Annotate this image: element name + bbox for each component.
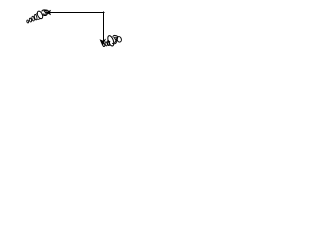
thread loop 3 bbox=[107, 40, 110, 45]
arrowhead (left, pointing at top screw) bbox=[46, 10, 50, 14]
thread loop 1 bbox=[102, 43, 105, 47]
shank edge top bbox=[108, 40, 110, 43]
wire: horizontal leader segment (row 12) bbox=[50, 12, 104, 14]
arrowhead (bottom, pointing down at bottom screw) bbox=[100, 40, 105, 46]
screw (bottom-right): flange ellipse bbox=[107, 35, 115, 47]
screw (bottom-right): head knob bbox=[116, 36, 122, 43]
shank edge top bbox=[35, 13, 38, 15]
thread loop 2 bbox=[29, 18, 32, 22]
shank edge bottom bbox=[38, 18, 41, 20]
shank edge bottom bbox=[108, 44, 110, 47]
screw (top-left): threaded shank bbox=[25, 13, 40, 25]
screw (top-left): flange ellipse bbox=[36, 10, 44, 19]
screw (bottom-right): head right band bbox=[115, 38, 117, 42]
thread loop 4 bbox=[34, 14, 38, 20]
head inner bottom arc bbox=[43, 12, 47, 15]
screw (bottom-right): head facet notch bbox=[114, 37, 117, 40]
screw (top-left): head facet notch bbox=[44, 11, 46, 13]
screw (top-left): head outline bbox=[42, 10, 48, 16]
wire: vertical leader segment (column 103) bbox=[103, 12, 105, 42]
thread loop 3 bbox=[31, 16, 34, 21]
thread loop 2 bbox=[105, 42, 108, 46]
screw (bottom-right): threaded shank bbox=[102, 40, 110, 46]
screw (bottom-right): head outline bbox=[112, 35, 117, 43]
thread loop 1 bbox=[26, 20, 28, 23]
